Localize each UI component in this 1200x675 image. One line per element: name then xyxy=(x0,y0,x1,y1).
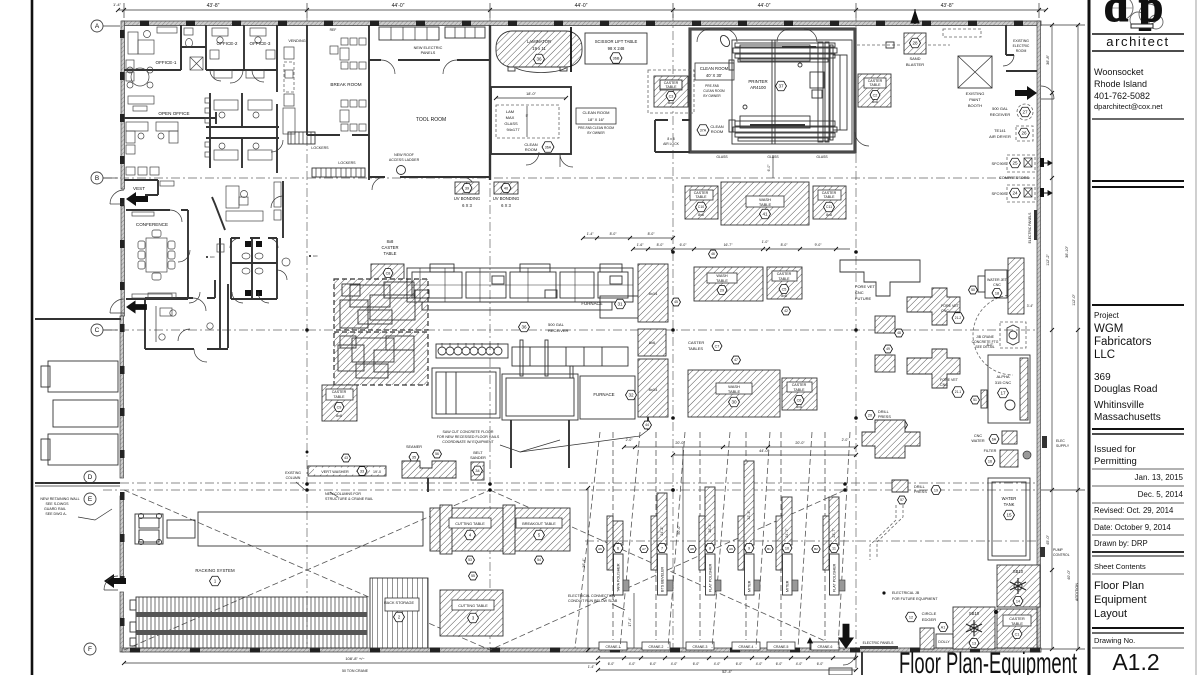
svg-text:EXISTING: EXISTING xyxy=(966,91,985,96)
hex 43 xyxy=(342,454,351,462)
svg-text:FOR FUTURE EQUIPMENT: FOR FUTURE EQUIPMENT xyxy=(892,597,938,601)
hex 5 xyxy=(534,530,545,540)
svg-text:ROOM: ROOM xyxy=(525,147,537,152)
svg-text:ELECTRICAL JB: ELECTRICAL JB xyxy=(892,591,920,595)
dock retaining wall xyxy=(35,318,121,320)
water jet cnc hatch bar xyxy=(1008,258,1024,314)
hex 49 xyxy=(884,345,893,353)
existing paint booth xyxy=(958,56,992,88)
svg-text:4’-0”: 4’-0” xyxy=(796,662,803,666)
left exterior wall xyxy=(121,21,125,189)
svg-text:8x14: 8x14 xyxy=(649,387,658,392)
svg-text:8’-0”: 8’-0” xyxy=(657,243,664,247)
grid line col 3 xyxy=(489,18,491,652)
middle machinery circles row xyxy=(436,343,628,366)
jib crane footing xyxy=(1000,322,1026,348)
svg-text:B: B xyxy=(95,175,99,182)
hex 6A xyxy=(989,435,999,444)
alpha 315 cnc xyxy=(988,355,1030,423)
furnace machinery top band xyxy=(407,264,660,318)
svg-text:SEE DWG A-: SEE DWG A- xyxy=(45,512,67,516)
hex C7 xyxy=(712,342,722,351)
wash table 30 xyxy=(688,370,780,417)
hex 50 xyxy=(969,286,978,294)
stairs office lockers xyxy=(288,132,315,144)
svg-text:Permitting: Permitting xyxy=(1094,456,1137,467)
svg-text:BOOTH: BOOTH xyxy=(968,103,982,108)
svg-text:TABLE: TABLE xyxy=(333,395,345,399)
architect band xyxy=(1092,33,1184,35)
hex 12 xyxy=(906,612,917,622)
svg-text:RACKING SYSTEM: RACKING SYSTEM xyxy=(195,568,235,573)
svg-text:6’-0”: 6’-0” xyxy=(776,662,783,666)
svg-text:FURNACE: FURNACE xyxy=(581,301,602,306)
svg-text:C1: C1 xyxy=(1015,632,1020,636)
svg-text:4’-0”: 4’-0” xyxy=(629,662,636,666)
svg-text:21-2: 21-2 xyxy=(955,316,962,320)
svg-text:21-1: 21-1 xyxy=(955,390,962,394)
uv bonding 39 table xyxy=(455,182,479,194)
svg-text:40: 40 xyxy=(504,186,508,190)
dashed pipe run xyxy=(870,505,903,560)
svg-text:TABLE: TABLE xyxy=(695,195,707,199)
svg-text:WGM: WGM xyxy=(1094,323,1123,335)
svg-text:25: 25 xyxy=(1012,161,1018,166)
tool room walls xyxy=(369,59,490,61)
dock bay 2 xyxy=(53,400,118,427)
hex 27 xyxy=(1020,107,1031,117)
hex 17 xyxy=(998,388,1009,398)
svg-text:CLEAN ROOM: CLEAN ROOM xyxy=(700,66,729,71)
svg-text:44’-0”: 44’-0” xyxy=(759,449,769,453)
polisher 9 MITER xyxy=(744,461,754,545)
svg-text:26: 26 xyxy=(1021,131,1027,136)
lower machinery boxes xyxy=(432,340,635,420)
existing electric room xyxy=(1006,25,1037,71)
svg-text:RECEIVER: RECEIVER xyxy=(990,112,1011,117)
right exterior wall xyxy=(1037,21,1041,652)
svg-text:SCISSOR LIFT TABLE: SCISSOR LIFT TABLE xyxy=(595,39,638,44)
svg-text:Drawn by: DRP: Drawn by: DRP xyxy=(1094,539,1148,548)
racking rows xyxy=(130,597,367,648)
svg-text:500 GAL: 500 GAL xyxy=(548,322,565,327)
hex C11 xyxy=(824,202,835,212)
svg-text:8’-0”: 8’-0” xyxy=(610,232,617,236)
dim row left mid xyxy=(583,237,673,239)
hex C5 xyxy=(779,285,789,294)
svg-text:50’-0”: 50’-0” xyxy=(677,525,681,535)
svg-text:9: 9 xyxy=(748,546,750,550)
svg-text:Revised: Oct. 29, 2014: Revised: Oct. 29, 2014 xyxy=(1094,506,1174,515)
crane line CRANE-5 xyxy=(780,432,782,640)
svg-text:GLASS: GLASS xyxy=(504,121,518,126)
svg-text:TABLES: TABLES xyxy=(688,346,703,351)
8x8 caster block upper xyxy=(334,279,428,330)
svg-text:UV BONDING: UV BONDING xyxy=(454,196,481,201)
svg-text:1’-4”: 1’-4” xyxy=(587,232,594,236)
svg-text:TABLE: TABLE xyxy=(716,279,728,283)
wash table 41 xyxy=(721,182,809,225)
svg-text:PAINT: PAINT xyxy=(969,97,981,102)
svg-text:CRANE-3: CRANE-3 xyxy=(693,645,708,649)
caster table C5 xyxy=(767,267,802,299)
hex 36 receiver xyxy=(519,322,530,332)
caster table C11 xyxy=(813,186,846,219)
svg-text:6’-0”: 6’-0” xyxy=(650,662,657,666)
hex 48 xyxy=(895,329,904,337)
svg-text:47: 47 xyxy=(734,358,738,362)
svg-text:19: 19 xyxy=(934,488,938,492)
svg-text:2’-0”: 2’-0” xyxy=(626,438,633,442)
svg-text:CASTER: CASTER xyxy=(1009,617,1025,621)
dock bay 1 xyxy=(48,361,118,392)
hex 44 xyxy=(643,421,652,429)
water tank xyxy=(988,478,1030,560)
polisher 10 MITER xyxy=(782,497,792,545)
hex 14 xyxy=(1013,597,1023,606)
svg-text:16: 16 xyxy=(988,459,992,463)
svg-text:B1: B1 xyxy=(767,547,771,551)
svg-text:39: 39 xyxy=(465,186,469,190)
svg-text:GLASS: GLASS xyxy=(816,155,828,159)
inner machine rects in caster block xyxy=(338,282,415,378)
Bx14 lower xyxy=(638,359,668,417)
svg-text:8x6: 8x6 xyxy=(649,340,656,345)
svg-text:4’-0”: 4’-0” xyxy=(714,662,721,666)
clean room label box xyxy=(576,108,616,124)
conference table xyxy=(146,238,167,272)
vent arrow up xyxy=(911,9,919,23)
svg-text:1’-4”: 1’-4” xyxy=(113,2,122,7)
svg-text:ELEC: ELEC xyxy=(1056,439,1065,443)
svg-text:44’-0”: 44’-0” xyxy=(758,3,771,9)
svg-text:98 X 248: 98 X 248 xyxy=(608,46,625,51)
svg-text:19 x 11: 19 x 11 xyxy=(532,46,546,51)
svg-text:36’-4”: 36’-4” xyxy=(582,558,586,568)
svg-text:WATER: WATER xyxy=(971,439,985,443)
truck cab xyxy=(135,512,423,546)
svg-text:12: 12 xyxy=(909,615,913,619)
hex 28 xyxy=(910,38,921,48)
caster table C9 xyxy=(322,385,357,421)
svg-text:8’-0”: 8’-0” xyxy=(987,343,993,347)
svg-text:43’-8”: 43’-8” xyxy=(941,3,954,9)
svg-text:D: D xyxy=(88,474,93,481)
svg-text:BLASTER: BLASTER xyxy=(906,62,924,67)
svg-text:DOLLY: DOLLY xyxy=(938,640,950,644)
svg-text:34: 34 xyxy=(475,469,479,473)
hex 30 xyxy=(729,397,740,407)
svg-text:A1.2: A1.2 xyxy=(1112,649,1159,675)
hex 55 xyxy=(469,572,478,580)
clean room 18x16 xyxy=(491,87,571,154)
svg-text:LAMINATOR: LAMINATOR xyxy=(527,39,551,44)
hex 36 laminator xyxy=(534,54,545,64)
svg-text:C7: C7 xyxy=(715,344,720,348)
fore vet cnc 21-1 xyxy=(907,349,960,388)
svg-text:E: E xyxy=(88,496,93,503)
office right wall xyxy=(276,25,278,173)
svg-text:BY OWNER: BY OWNER xyxy=(587,131,605,135)
bottom exterior wall xyxy=(122,648,1041,652)
svg-text:VENDING: VENDING xyxy=(288,39,305,43)
svg-text:27: 27 xyxy=(1022,110,1028,115)
8x6 block xyxy=(638,329,666,356)
svg-text:C5: C5 xyxy=(782,287,787,291)
svg-text:C10: C10 xyxy=(698,205,704,209)
toilet stalls fixtures xyxy=(245,241,251,247)
svg-text:SB10: SB10 xyxy=(1013,569,1024,574)
clean room dim 18-0 xyxy=(496,97,566,99)
svg-text:Jan. 13, 2015: Jan. 13, 2015 xyxy=(1135,473,1184,482)
hex 26 xyxy=(1019,128,1030,138)
printer machine xyxy=(719,34,852,144)
hex 34 xyxy=(473,466,483,475)
drill press 19 xyxy=(892,480,908,492)
svg-text:50: 50 xyxy=(971,288,975,292)
svg-text:GUARD RAIL: GUARD RAIL xyxy=(44,507,66,511)
svg-text:SFC90S: SFC90S xyxy=(991,161,1006,166)
svg-text:SAW CUT CONCRETE FLOOR: SAW CUT CONCRETE FLOOR xyxy=(443,430,494,434)
svg-text:CASTER: CASTER xyxy=(792,383,807,387)
svg-text:SEAMER: SEAMER xyxy=(406,445,422,449)
svg-text:CRANE-6: CRANE-6 xyxy=(818,645,833,649)
svg-text:Whitinsville: Whitinsville xyxy=(1094,400,1144,411)
hatch block left of 21-2 xyxy=(875,316,895,333)
circle edger hatch xyxy=(920,628,934,649)
caster table C10 xyxy=(685,186,718,219)
svg-text:COLUMN: COLUMN xyxy=(286,476,301,480)
hatch block left of 21-1 xyxy=(875,355,895,372)
svg-text:112’-2”: 112’-2” xyxy=(1046,254,1050,266)
svg-text:44: 44 xyxy=(645,423,649,427)
open office cubicle cluster xyxy=(206,93,279,168)
hex 57 xyxy=(898,496,907,504)
crane line CRANE-3 xyxy=(699,432,701,640)
svg-text:SAND: SAND xyxy=(909,56,920,61)
grid bubbles xyxy=(91,20,103,32)
svg-text:VEST: VEST xyxy=(133,186,145,191)
svg-text:CNC: CNC xyxy=(993,283,1001,287)
svg-text:17: 17 xyxy=(1000,391,1006,396)
hex 21-1 xyxy=(952,387,964,397)
X bracing dashed xyxy=(124,490,490,650)
svg-text:Sheet Contents: Sheet Contents xyxy=(1094,562,1146,571)
caster table C6 xyxy=(782,378,817,410)
svg-text:4’-0”: 4’-0” xyxy=(756,662,763,666)
svg-text:43’-8”: 43’-8” xyxy=(207,3,220,9)
svg-text:FLAT POLISHER: FLAT POLISHER xyxy=(833,563,837,592)
svg-text:RACK STORAGE: RACK STORAGE xyxy=(384,601,415,605)
polisher 8 FLAT POLISHER xyxy=(705,487,715,545)
sand blaster xyxy=(904,33,926,54)
clean room 40x30 label box xyxy=(695,63,734,80)
svg-text:CRANE-4: CRANE-4 xyxy=(739,645,754,649)
svg-text:JIB CRANE: JIB CRANE xyxy=(976,335,994,339)
crane line CRANE-6 xyxy=(824,432,826,640)
svg-text:VERT WASHER: VERT WASHER xyxy=(321,470,349,474)
svg-text:Dec. 5, 2014: Dec. 5, 2014 xyxy=(1138,490,1184,499)
small room desk bottom xyxy=(160,308,172,316)
svg-text:OFFICE-1: OFFICE-1 xyxy=(156,60,177,65)
svg-text:54: 54 xyxy=(537,558,541,562)
svg-text:TABLE: TABLE xyxy=(1011,622,1023,626)
svg-text:18: 18 xyxy=(995,291,999,295)
laminator xyxy=(496,31,582,67)
svg-text:Date: October 9, 2014: Date: October 9, 2014 xyxy=(1094,523,1171,532)
small up arrow near crane 6 xyxy=(808,638,813,650)
clean room door arc xyxy=(560,154,573,167)
svg-text:315 CNC: 315 CNC xyxy=(995,380,1012,385)
svg-text:OFFICE-3: OFFICE-3 xyxy=(250,41,271,46)
trailer xyxy=(167,520,195,538)
svg-text:9’-0”: 9’-0” xyxy=(815,243,822,247)
svg-text:500 GAL: 500 GAL xyxy=(992,106,1009,111)
svg-text:8x8: 8x8 xyxy=(826,213,832,217)
svg-text:BTS BEVELER: BTS BEVELER xyxy=(661,566,665,592)
svg-text:TABLE: TABLE xyxy=(759,202,772,207)
svg-text:6’-0”: 6’-0” xyxy=(817,662,824,666)
svg-text:FORE VET: FORE VET xyxy=(940,378,959,382)
svg-text:TABLE: TABLE xyxy=(869,83,881,87)
svg-text:MAX: MAX xyxy=(506,115,515,120)
dp logo xyxy=(1104,0,1163,31)
svg-text:A9: A9 xyxy=(729,547,733,551)
entry arrow right side xyxy=(1015,86,1037,100)
svg-text:Rhode Island: Rhode Island xyxy=(1094,79,1147,89)
hex C8 xyxy=(383,269,393,278)
right dim line xyxy=(1051,25,1053,649)
svg-text:Floor Plan-Equipment: Floor Plan-Equipment xyxy=(899,647,1077,675)
svg-text:FORE VET: FORE VET xyxy=(941,304,960,308)
8x8 caster block lower xyxy=(334,332,428,385)
hex 42 xyxy=(782,307,791,315)
svg-text:CUTTING TABLE: CUTTING TABLE xyxy=(455,522,485,526)
svg-text:SANDER: SANDER xyxy=(470,456,486,460)
svg-text:TANK: TANK xyxy=(1004,502,1015,507)
svg-text:33: 33 xyxy=(360,469,364,473)
SB10 14 xyxy=(997,565,1040,607)
svg-text:CONTROL: CONTROL xyxy=(1053,553,1070,557)
svg-text:36’-8”: 36’-8” xyxy=(1046,54,1050,64)
drill press hatch blocks xyxy=(862,420,920,458)
svg-text:NEW ELECTRIC: NEW ELECTRIC xyxy=(414,46,443,50)
svg-text:8x8: 8x8 xyxy=(387,239,394,244)
cutting table 3 xyxy=(440,590,503,636)
svg-text:14: 14 xyxy=(1016,599,1020,603)
office-1 round table xyxy=(131,68,149,86)
svg-text:TAPA POLISHER: TAPA POLISHER xyxy=(617,563,621,592)
dim 6-0 below printer room xyxy=(772,155,774,178)
svg-text:6 X 3: 6 X 3 xyxy=(462,203,472,208)
dim row mid xyxy=(633,248,850,250)
svg-text:56: 56 xyxy=(435,452,439,456)
svg-text:4’-0”: 4’-0” xyxy=(671,662,678,666)
svg-text:DRILL: DRILL xyxy=(914,485,925,489)
svg-text:6’-0”: 6’-0” xyxy=(680,243,687,247)
svg-text:C6: C6 xyxy=(797,398,802,402)
svg-text:40’-0”: 40’-0” xyxy=(1067,569,1071,579)
break room walls xyxy=(307,25,369,180)
svg-text:55: 55 xyxy=(471,574,475,578)
door arcs office xyxy=(210,70,264,83)
office area walls xyxy=(124,25,277,70)
grid line col 5 xyxy=(855,18,857,652)
break room tables xyxy=(341,38,348,45)
office-2 furniture xyxy=(212,28,228,36)
vert washer xyxy=(308,466,386,476)
svg-text:112’-0”: 112’-0” xyxy=(1072,294,1076,306)
svg-text:C11: C11 xyxy=(826,205,832,209)
svg-text:NEW ROOF: NEW ROOF xyxy=(394,153,415,157)
hex 36A xyxy=(542,142,554,152)
svg-text:23’-7”: 23’-7” xyxy=(832,528,836,538)
office-1 credenza xyxy=(128,96,154,104)
svg-text:6’-0”: 6’-0” xyxy=(693,662,700,666)
svg-text:CO: CO xyxy=(313,254,318,258)
svg-text:ELECTRICAL CONNECTION: ELECTRICAL CONNECTION xyxy=(568,594,616,598)
toilet xyxy=(184,28,193,35)
svg-text:8x8: 8x8 xyxy=(336,414,342,418)
svg-text:EXISTING: EXISTING xyxy=(285,471,301,475)
svg-text:CONDUIT RUN BELOW SLAB: CONDUIT RUN BELOW SLAB xyxy=(568,599,618,603)
svg-text:CRANE-2: CRANE-2 xyxy=(649,645,664,649)
svg-text:50 TON CRANE: 50 TON CRANE xyxy=(342,669,369,673)
svg-text:A6: A6 xyxy=(598,547,602,551)
svg-text:30: 30 xyxy=(731,400,737,405)
svg-text:FURNACE: FURNACE xyxy=(593,392,614,397)
vest seats xyxy=(126,167,135,175)
Bx14 upper xyxy=(638,264,668,322)
svg-text:16’-7”: 16’-7” xyxy=(724,243,733,247)
svg-text:8x8: 8x8 xyxy=(796,405,802,409)
svg-text:46: 46 xyxy=(711,252,715,256)
svg-text:LOCKERS: LOCKERS xyxy=(338,161,356,165)
polisher area dims xyxy=(673,454,856,456)
svg-text:57: 57 xyxy=(900,498,904,502)
svg-text:Douglas Road: Douglas Road xyxy=(1094,384,1157,395)
svg-text:6’-0”: 6’-0” xyxy=(767,165,771,172)
hex 40 xyxy=(501,184,511,193)
svg-text:CLEAN ROOM: CLEAN ROOM xyxy=(703,89,725,93)
hex 29 xyxy=(717,286,727,295)
svg-text:AR4100: AR4100 xyxy=(750,85,766,90)
hex 18 xyxy=(992,289,1002,298)
svg-text:108’-8” +/−: 108’-8” +/− xyxy=(345,656,365,661)
electrical jb note xyxy=(882,591,885,594)
svg-text:Issued for: Issued for xyxy=(1094,444,1136,455)
svg-text:401-762-5082: 401-762-5082 xyxy=(1094,91,1150,101)
hex 56 xyxy=(433,450,442,458)
printer room door arcs xyxy=(697,29,817,42)
svg-text:SEE S-DWGS: SEE S-DWGS xyxy=(46,502,70,506)
svg-text:369: 369 xyxy=(1094,372,1111,383)
svg-text:3’-4”: 3’-4” xyxy=(1027,304,1033,308)
caster table C1 xyxy=(997,609,1037,648)
svg-text:43: 43 xyxy=(344,456,348,460)
svg-text:19’-0: 19’-0 xyxy=(373,470,381,474)
svg-text:11: 11 xyxy=(832,546,836,550)
svg-text:37: 37 xyxy=(778,84,784,89)
svg-text:1’-6”: 1’-6” xyxy=(637,243,644,247)
svg-text:ADDITION: ADDITION xyxy=(1075,583,1079,601)
dashed box near top xyxy=(943,29,981,37)
hex 32 xyxy=(626,390,637,400)
arrow at wall 25 xyxy=(1044,161,1052,165)
svg-text:OFFICE-2: OFFICE-2 xyxy=(217,41,238,46)
crane line CRANE-4 xyxy=(745,432,747,640)
svg-text:35: 35 xyxy=(412,455,416,459)
